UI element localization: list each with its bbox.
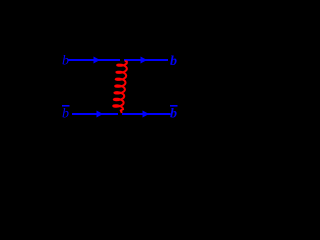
- arrow on top line right: [141, 57, 148, 64]
- wire: bottom fermion line bbar, right segment: [122, 113, 171, 115]
- arrow on top line left: [94, 57, 101, 64]
- arrow on bottom line right: [143, 111, 150, 118]
- svg-text:b: b: [170, 107, 177, 122]
- gluon propagator (red coil): [113, 61, 127, 113]
- svg-text:b: b: [170, 54, 177, 69]
- overbar of bbar bottom-right: [170, 105, 178, 107]
- wire: top fermion line b, right segment: [124, 59, 168, 61]
- svg-text:b: b: [62, 107, 69, 122]
- overbar of bbar bottom-left: [62, 105, 70, 107]
- arrow on bottom line left: [97, 111, 104, 118]
- svg-text:b: b: [62, 54, 69, 69]
- wire: bottom fermion line bbar, left segment: [72, 113, 118, 115]
- wire: top fermion line b, left segment: [69, 59, 121, 61]
